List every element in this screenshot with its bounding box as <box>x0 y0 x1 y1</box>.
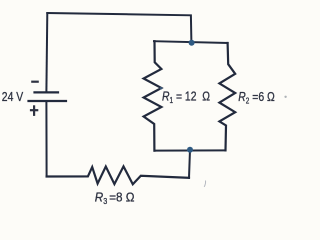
svg-text:R1 = 12 Ω: R1 = 12 Ω <box>162 89 210 105</box>
svg-text:R3=8 Ω: R3=8 Ω <box>95 190 135 206</box>
svg-text:R2 =6 Ω: R2 =6 Ω <box>238 90 275 106</box>
svg-text:24 V: 24 V <box>2 90 24 104</box>
